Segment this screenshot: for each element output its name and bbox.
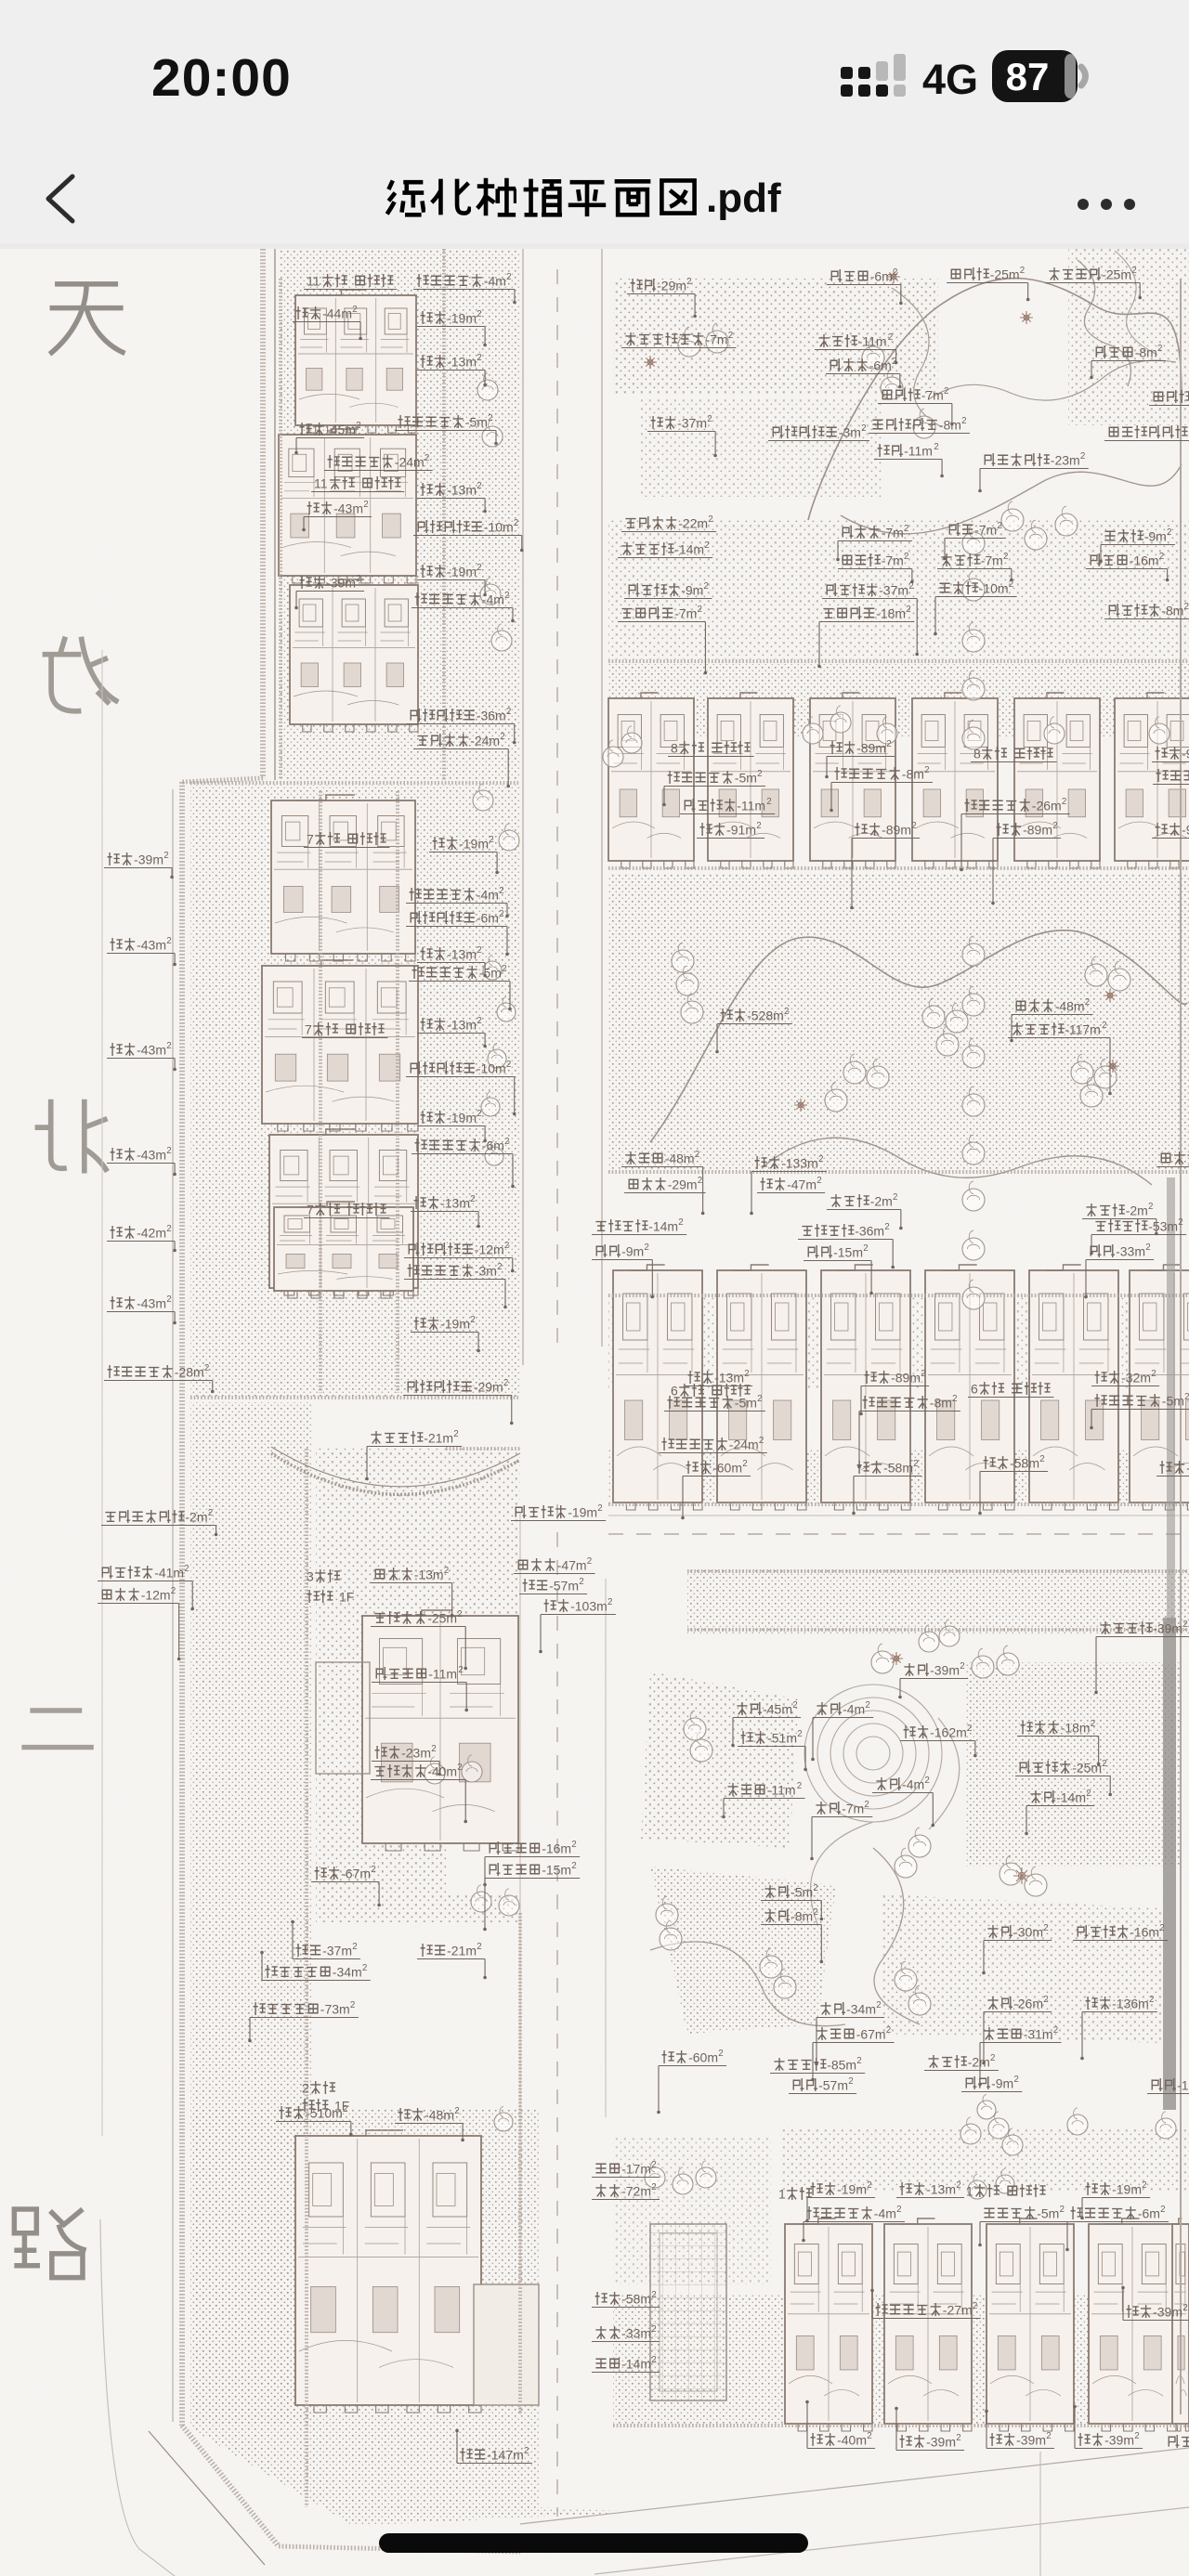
right dark scan band (1163, 1618, 1176, 2110)
svg-text:2: 2 (818, 1154, 823, 1164)
label 木春菊-47m² (514, 1556, 595, 1574)
svg-text:2: 2 (504, 1137, 509, 1147)
label 毛鹃-57m² (789, 2076, 856, 2094)
site boundary west lower (179, 782, 185, 2426)
svg-text:-42m: -42m (137, 1225, 166, 1240)
svg-text:2: 2 (886, 739, 891, 749)
tree cluster central road (483, 956, 502, 981)
label 红叶石楠-37m² (822, 581, 919, 656)
svg-text:-39m: -39m (134, 852, 163, 866)
svg-text:-8m: -8m (1161, 603, 1183, 618)
svg-text:-33m: -33m (621, 2325, 651, 2340)
label 草坪-58m² (978, 1454, 1048, 1515)
svg-text:2: 2 (1159, 1923, 1164, 1933)
lawn texture: top right strip (613, 279, 938, 395)
label 天竺桂绿篱-4m² (413, 272, 516, 304)
svg-text:-7m: -7m (974, 522, 997, 537)
road name 二 (21, 1711, 93, 1748)
svg-text:2: 2 (863, 1243, 868, 1254)
label 粉鹃-14m² (1025, 1789, 1094, 1835)
label 粉鹃-45m² (731, 1700, 801, 1747)
texture: 6号楼 below (608, 1449, 1189, 1504)
label 草坪-13m² (685, 1369, 752, 1386)
label 架空 1F (303, 2098, 350, 2113)
road name 北 (35, 1099, 108, 1174)
label 草坪-42m² (107, 1224, 176, 1252)
hedge horizontal y1505 (190, 1396, 520, 1399)
label 天竺桂绿篱-6m² (1065, 2205, 1169, 2251)
label 草坪-510m² (276, 2104, 353, 2136)
label 蓝雪花-9m² (1099, 527, 1175, 563)
svg-text:2: 2 (884, 1222, 889, 1232)
svg-text:-18m: -18m (876, 605, 906, 620)
label 草坪-162m² (900, 1724, 977, 1757)
label 木春菊 (1156, 1151, 1189, 1167)
svg-text:2: 2 (506, 707, 511, 717)
svg-text:3: 3 (307, 1568, 314, 1583)
label 3号楼 (307, 1568, 340, 1583)
svg-text:-32m: -32m (1121, 1370, 1151, 1385)
svg-text:-19m: -19m (447, 310, 477, 325)
building 6号楼 unit6 (1130, 1265, 1189, 1510)
label 架空 1F (307, 1589, 355, 1604)
svg-text:2: 2 (454, 2106, 459, 2116)
label 7号楼 二单元 (302, 1021, 388, 1037)
svg-text:-57m: -57m (818, 2077, 848, 2092)
svg-text:-12m: -12m (475, 1242, 504, 1256)
hedge band 6号楼 top (608, 1294, 1189, 1297)
svg-text:2: 2 (651, 2355, 656, 2365)
label 红叶石楠-8m² (1104, 602, 1189, 648)
label 红花满天星-6m² (406, 909, 509, 956)
building 7号楼 unit2 (262, 960, 418, 1131)
label 1号楼 二单元 (966, 2183, 1046, 2198)
label 6号楼 二单元 (671, 1383, 751, 1398)
svg-text:2: 2 (425, 453, 429, 463)
svg-text:2: 2 (756, 821, 761, 831)
svg-text:-45m: -45m (326, 422, 356, 436)
svg-text:-103m: -103m (570, 1598, 608, 1613)
svg-text:2: 2 (1052, 821, 1057, 831)
label 白美人狼尾草-6m² (1104, 423, 1189, 441)
label 粉鹃-26m² (982, 1995, 1052, 2064)
label 草坪-103m² (539, 1597, 616, 1653)
svg-text:2: 2 (1148, 1202, 1153, 1212)
svg-text:2: 2 (867, 2431, 871, 2441)
svg-text:2: 2 (1134, 2431, 1139, 2441)
svg-text:2: 2 (886, 2025, 891, 2036)
svg-text:-60m: -60m (712, 1460, 742, 1475)
site boundary SW diagonal (182, 2426, 279, 2546)
label 小叶栀子-15m² (483, 1861, 580, 1931)
svg-text:-29m: -29m (657, 278, 686, 293)
svg-text:-19m: -19m (837, 2181, 867, 2196)
label 花叶鸭脚木-34m² (260, 1951, 371, 1981)
hedge band 6号楼 bottom (608, 1503, 1189, 1506)
label 粉鹃-39m² (898, 1661, 968, 1698)
label 木春菊-12m² (98, 1586, 180, 1660)
building 6号楼 unit4 (925, 1265, 1014, 1510)
label 草坪-39m² (985, 2410, 1054, 2449)
texture top-right corner (1068, 249, 1189, 425)
label 11号楼 三单元 (304, 273, 397, 289)
label 草坪-13m² (417, 481, 487, 513)
texture: 1号楼 row top band (780, 2127, 1189, 2192)
building 11号楼 unit3 (295, 290, 416, 433)
building 7号楼 unit1 (269, 1129, 418, 1295)
label 红花满天星-3m² (768, 423, 869, 441)
label 粉鹃-4m² (872, 1776, 934, 1827)
svg-text:-47m: -47m (557, 1557, 587, 1572)
building 8号楼 unit4 (912, 693, 998, 868)
svg-text:-13m: -13m (447, 482, 477, 497)
road name 天 (50, 284, 125, 354)
svg-text:2: 2 (864, 1800, 869, 1810)
svg-text:87: 87 (1006, 55, 1050, 98)
label 天竺桂绿篱-4m² (412, 591, 515, 622)
svg-text:-1m: -1m (1177, 2077, 1189, 2092)
svg-text:-11m: -11m (428, 1666, 457, 1681)
svg-text:2: 2 (924, 765, 929, 775)
label 银姬小蜡-7m² (618, 605, 707, 674)
svg-text:-31m: -31m (1024, 2026, 1053, 2041)
svg-text:-13m: -13m (447, 946, 477, 961)
label 草坪-13m² (411, 1194, 480, 1228)
svg-text:2: 2 (867, 2180, 871, 2191)
svg-text:-21m: -21m (447, 1943, 477, 1958)
svg-text:-39m: -39m (1153, 1620, 1182, 1635)
svg-text:2: 2 (708, 514, 712, 525)
label 1号楼 (778, 2186, 812, 2201)
garden path blobs lower (650, 1942, 845, 2026)
svg-text:2: 2 (934, 442, 938, 452)
label 红叶石楠-9m² (624, 581, 712, 599)
label 毛鹃-9m² (592, 1242, 654, 1298)
label 草坪-19m² (417, 309, 487, 346)
svg-text:8: 8 (671, 740, 678, 755)
svg-text:2: 2 (651, 2160, 656, 2170)
svg-text:-6m: -6m (870, 268, 893, 283)
svg-text:2: 2 (766, 797, 771, 807)
svg-text:2: 2 (704, 581, 709, 592)
svg-text:2: 2 (1043, 1995, 1048, 2005)
label 草坪-43m² (107, 1146, 176, 1176)
svg-text:-8m: -8m (790, 1908, 813, 1923)
svg-text:2: 2 (728, 331, 733, 341)
label 草坪-9m² (1152, 745, 1189, 762)
svg-text:2: 2 (444, 1566, 449, 1576)
svg-text:2: 2 (457, 1763, 462, 1773)
svg-text:-133m: -133m (781, 1155, 818, 1170)
svg-text:2: 2 (757, 769, 762, 779)
label 6号楼 七单元 (968, 1381, 1054, 1397)
site boundary west step (182, 778, 263, 782)
svg-text:-23m: -23m (1051, 452, 1080, 467)
svg-text:2: 2 (961, 416, 966, 426)
label 山桃草-7m² (838, 552, 914, 583)
label 金边黄杨-14m² (592, 1217, 686, 1235)
svg-text:-43m: -43m (137, 1147, 166, 1162)
svg-text:-37m: -37m (677, 415, 707, 430)
label 草坪-39m² (104, 851, 174, 878)
svg-text:2: 2 (1160, 2205, 1165, 2215)
svg-text:-8m: -8m (902, 766, 924, 781)
svg-text:2: 2 (502, 964, 506, 974)
label 草坪-58m² (852, 1459, 921, 1515)
label 草坪-136m² (1080, 1995, 1157, 2060)
lawn texture: band above 8号楼 (608, 520, 1189, 659)
label 竺桂绿篱-5m² (978, 2205, 1067, 2246)
svg-text:-24m: -24m (729, 1437, 759, 1451)
site boundary west upper (260, 249, 266, 778)
label 大栀子-31m² (978, 2025, 1061, 2086)
svg-text:-9m: -9m (1182, 822, 1189, 837)
svg-text:2: 2 (571, 1861, 576, 1871)
road name 路 (14, 2209, 85, 2278)
lawn texture: 3号楼 surroundings (316, 1449, 520, 1922)
building 8号楼 unit5 (1014, 693, 1100, 868)
svg-text:-29m: -29m (668, 1177, 698, 1191)
label 草坪-39m² (1121, 2286, 1189, 2321)
label 迷迭香-6m² (827, 267, 903, 305)
svg-text:2: 2 (651, 2324, 656, 2335)
svg-text:-47m: -47m (787, 1177, 817, 1191)
texture: courtyard NW corner garden (613, 2136, 771, 2284)
svg-text:-4m: -4m (902, 1776, 924, 1791)
svg-text:2: 2 (477, 1016, 481, 1026)
label 红叶石楠-25m² (1015, 1759, 1112, 1796)
svg-text:-10m: -10m (484, 519, 514, 534)
svg-text:2: 2 (888, 332, 893, 343)
central road west edge (522, 249, 524, 1365)
svg-text:2: 2 (944, 386, 948, 397)
svg-text:-11m: -11m (737, 798, 765, 813)
svg-text:2: 2 (514, 518, 518, 528)
label 草坪-43m² (107, 1295, 176, 1324)
svg-text:-37m: -37m (879, 582, 908, 597)
svg-text:2: 2 (1167, 527, 1171, 538)
pond curvy band in big lawn (650, 930, 1187, 1142)
label 草坪-19m² (417, 563, 487, 596)
svg-text:-4m: -4m (482, 592, 504, 606)
svg-text:-45m: -45m (763, 1701, 792, 1716)
label 木春菊-48m² (1010, 997, 1092, 1042)
svg-text:2: 2 (813, 1883, 817, 1893)
svg-text:-13m: -13m (926, 2181, 956, 2196)
label 草坪-89m² (991, 821, 1061, 904)
building 8号楼 unit1 (608, 693, 694, 868)
svg-text:2: 2 (644, 1242, 648, 1253)
status bar (0, 0, 1189, 243)
svg-text:-6m: -6m (482, 1138, 504, 1152)
lawn texture: 2号楼 big block (190, 2108, 641, 2526)
svg-text:2: 2 (797, 1729, 802, 1739)
lawn texture: 7号楼 block (190, 785, 520, 1398)
svg-text:-39m: -39m (1104, 2432, 1134, 2447)
svg-text:2: 2 (352, 305, 357, 315)
svg-text:2: 2 (1046, 2431, 1051, 2441)
svg-text:-26m: -26m (1013, 1996, 1043, 2010)
svg-text:2: 2 (997, 521, 1001, 531)
svg-text:2: 2 (208, 1508, 213, 1518)
trees 1号楼 top (645, 2161, 665, 2188)
svg-text:2: 2 (457, 1609, 462, 1620)
svg-text:-24m: -24m (395, 454, 425, 469)
svg-text:2: 2 (906, 605, 910, 615)
label 草坪-19m² (411, 1315, 480, 1352)
hedge horizontal y840 (190, 781, 520, 785)
svg-text:-18m: -18m (1061, 1720, 1091, 1735)
svg-text:-16m: -16m (1130, 553, 1159, 567)
svg-text:2: 2 (504, 1241, 509, 1251)
label 天竺桂绿篱-5m² (409, 964, 512, 1010)
label 栀子-17m² (592, 2160, 660, 2178)
texture: 6号楼 row (608, 1295, 1189, 1388)
label 草坪-528m² (715, 1007, 792, 1053)
svg-text:2: 2 (477, 945, 481, 956)
svg-text:-40m: -40m (427, 1763, 457, 1778)
label 毛鹃-1m² (1147, 2076, 1189, 2094)
label 八仙花-7m² (937, 552, 1013, 581)
road name 龙 (43, 637, 119, 711)
svg-text:-89m: -89m (891, 1370, 921, 1385)
label 天竺桂绿篱-24m² (659, 1436, 767, 1453)
label 八仙花-2m² (827, 1192, 903, 1229)
svg-text:2: 2 (470, 1315, 475, 1325)
svg-text:-5m: -5m (735, 770, 757, 785)
svg-text:2: 2 (695, 1150, 699, 1160)
building 11号楼 unit2 (279, 429, 416, 583)
svg-text:2: 2 (1060, 2205, 1065, 2215)
label 红叶石楠-41m² (98, 1564, 194, 1610)
label 迷迭香-16m² (1086, 552, 1169, 581)
svg-text:-44m: -44m (322, 306, 352, 320)
label 小叶栀子-11m² (372, 1665, 468, 1711)
home indicator (379, 2533, 808, 2553)
label 花境-11m² (874, 442, 944, 477)
svg-text:2: 2 (1182, 1620, 1187, 1630)
svg-text:2: 2 (1062, 797, 1066, 807)
label 木春菊-29m² (624, 1176, 706, 1193)
svg-text:-30m: -30m (1013, 1924, 1043, 1939)
svg-text:2: 2 (204, 1363, 209, 1373)
svg-text:-4m: -4m (477, 887, 499, 902)
label 天竺桂绿篱-8m² (857, 1394, 960, 1468)
svg-text:-89m: -89m (856, 740, 886, 755)
svg-text:2: 2 (477, 353, 481, 363)
svg-text:2: 2 (956, 2180, 960, 2191)
label 草坪-19m² (429, 835, 499, 874)
label 大栀子-11m² (722, 1781, 804, 1818)
texture: garden east low (882, 1894, 1161, 2043)
svg-text:2: 2 (865, 1700, 869, 1711)
svg-text:2: 2 (924, 1776, 929, 1786)
back chevron (41, 173, 82, 225)
svg-text:2: 2 (431, 1744, 436, 1754)
label 女贞-72m² (592, 2182, 660, 2200)
svg-text:-10m: -10m (979, 580, 1009, 595)
svg-text:-39m: -39m (926, 2434, 956, 2449)
svg-text:-14m: -14m (1056, 1789, 1086, 1804)
label 八仙花-11m² (815, 332, 897, 364)
svg-text:1: 1 (966, 2183, 973, 2198)
hedge strip 11号楼 left (279, 279, 282, 780)
svg-text:-58m: -58m (621, 2291, 651, 2306)
svg-text:-25m: -25m (1072, 1760, 1102, 1775)
svg-text:2: 2 (698, 605, 702, 615)
svg-text:-39m: -39m (1153, 2304, 1182, 2319)
svg-text:2: 2 (707, 414, 712, 424)
svg-text:2: 2 (488, 413, 492, 423)
svg-text:-67m: -67m (856, 2026, 886, 2041)
label 海桐-37m² (291, 1920, 360, 1959)
svg-text:2: 2 (1091, 1719, 1095, 1729)
svg-text:2: 2 (744, 1369, 749, 1379)
tennis court grid (650, 2224, 726, 2400)
top-right garden amoeba (808, 279, 1182, 520)
svg-text:2: 2 (784, 1007, 789, 1017)
building 7号楼 unit3 (271, 795, 415, 961)
label 草坪-89m² (850, 821, 920, 909)
svg-text:-43m: -43m (137, 937, 166, 952)
trees big lawn (672, 943, 694, 972)
svg-text:-29m: -29m (474, 1379, 503, 1394)
label 矶根-7m² (943, 521, 1005, 560)
label 草坪-9m² (1152, 821, 1189, 839)
svg-text:-58m: -58m (883, 1460, 913, 1475)
label 草坪-43m² (107, 936, 176, 966)
label 西哥鼠尾草-23m² (978, 451, 1089, 492)
svg-text:2: 2 (499, 909, 503, 919)
hedge band above 8号楼 (608, 659, 1189, 663)
label 草坪-39m² (895, 2407, 964, 2451)
label 粉鹃-34m² (815, 2000, 884, 2065)
label 大叶黄杨-85m² (770, 2056, 865, 2074)
svg-text:-25m: -25m (427, 1610, 457, 1625)
right page edge line (1180, 279, 1182, 2414)
svg-text:-13m: -13m (440, 1195, 470, 1210)
svg-text:-14m: -14m (674, 541, 704, 556)
hedge strip x425 (396, 791, 399, 1393)
label 大叶黄杨-21m² (365, 1429, 462, 1480)
label 天竺桂绿篱-5m² (664, 1394, 765, 1412)
svg-text:2: 2 (458, 1665, 463, 1675)
svg-text:2: 2 (911, 821, 916, 831)
label 粉鹃-4m² (811, 1700, 873, 1761)
scribbles top right corner (1078, 260, 1130, 386)
spiral arms (811, 1822, 874, 1924)
svg-text:-25m: -25m (1102, 267, 1131, 281)
svg-text:2: 2 (913, 1459, 918, 1469)
hedge box 3号楼 (446, 1447, 520, 1451)
svg-text:2: 2 (171, 1586, 176, 1596)
svg-text:2: 2 (893, 1192, 897, 1203)
building 1号楼 unit2 (884, 2218, 972, 2431)
svg-text:-23m: -23m (401, 1745, 431, 1760)
label 红叶石楠-11m² (680, 797, 775, 814)
svg-text:-13m: -13m (714, 1370, 744, 1385)
texture: garden NE block (966, 1662, 1180, 1867)
label 草坪-40m² (805, 2400, 875, 2449)
label 海桐-57m² (519, 1577, 587, 1594)
svg-text:2: 2 (1145, 1242, 1150, 1253)
label 红花满天星-10m² (413, 518, 524, 552)
label 大栀子-48m² (621, 1150, 704, 1215)
svg-text:2: 2 (163, 851, 168, 861)
hedge band y1690 (687, 1569, 1189, 1573)
svg-text:-4m: -4m (484, 273, 506, 288)
svg-text:2: 2 (166, 1224, 171, 1234)
